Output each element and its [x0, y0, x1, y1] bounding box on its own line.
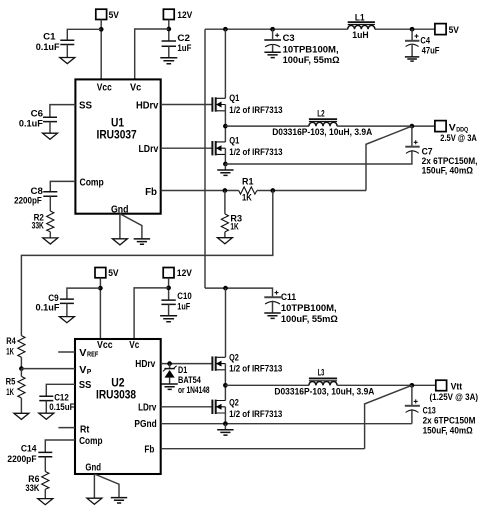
svg-text:1K: 1K — [230, 222, 238, 232]
svg-text:2200pF: 2200pF — [7, 454, 36, 464]
transistor Q1 low-side — [212, 126, 225, 164]
resistor R2 — [47, 211, 54, 238]
ground earth below U1 Gnd — [134, 239, 150, 244]
svg-text:2.5V @ 3A: 2.5V @ 3A — [440, 133, 477, 143]
svg-text:Q2: Q2 — [229, 352, 239, 362]
node 12V/Vc U2 — [166, 286, 171, 291]
svg-text:REF: REF — [87, 352, 99, 359]
svg-text:0.1uF: 0.1uF — [36, 302, 60, 312]
svg-text:HDrv: HDrv — [135, 359, 155, 370]
wire 5V rail lower — [205, 288, 273, 297]
svg-text:1K: 1K — [6, 387, 14, 397]
wire R1 to fb node — [257, 190, 366, 192]
svg-text:100uF, 55mΩ: 100uF, 55mΩ — [281, 314, 339, 324]
wire L3 to Vtt — [337, 384, 436, 386]
wire switch node to L3 — [225, 384, 309, 386]
node Q1 source ground — [223, 162, 228, 167]
svg-text:1/2 of IRF7313: 1/2 of IRF7313 — [229, 147, 282, 157]
wire Gnd U2 fork — [94, 474, 119, 498]
svg-text:Gnd: Gnd — [111, 204, 129, 215]
capacitor C6 — [43, 117, 57, 133]
ground earth below C10 — [160, 316, 177, 322]
node PGnd/Q2 source — [223, 421, 228, 426]
ground earth below D1 — [161, 384, 177, 389]
wire SS U2 to C12 — [46, 384, 75, 396]
ground earth below C2 — [160, 58, 177, 64]
terminal 5V top-left — [96, 9, 107, 19]
svg-text:SS: SS — [79, 100, 92, 111]
wire LDrv to Q1 gate — [161, 147, 213, 149]
capacitor C1 — [60, 40, 74, 57]
terminal 5V right — [435, 24, 446, 35]
svg-text:Vc: Vc — [129, 340, 139, 351]
svg-text:L1: L1 — [355, 12, 365, 22]
wire C1 branch — [67, 29, 101, 40]
svg-text:33K: 33K — [25, 483, 39, 493]
node rail/C3 — [270, 27, 275, 32]
svg-text:10TPB100M,: 10TPB100M, — [283, 45, 339, 55]
node rail/C4 — [410, 27, 415, 32]
ground earth below C11 — [264, 313, 280, 318]
node 5V/C1 junction — [99, 27, 104, 32]
diode D1 BAT54 — [163, 364, 177, 384]
wire C9 branch — [67, 288, 101, 299]
svg-text:0.1uF: 0.1uF — [36, 42, 60, 52]
svg-text:BAT54: BAT54 — [178, 375, 201, 385]
ground earth below U2 Gnd — [111, 498, 127, 503]
capacitor C3 polarized — [264, 29, 281, 52]
svg-text:C4: C4 — [420, 35, 430, 45]
wire 12V to C10 — [168, 278, 170, 300]
capacitor C2 — [162, 41, 176, 58]
resistor R1 — [239, 187, 257, 194]
svg-text:1/2 of IRF7313: 1/2 of IRF7313 — [229, 364, 282, 374]
ground earth Q1 source — [217, 164, 233, 175]
svg-text:D03316P-103, 10uH, 3.9A: D03316P-103, 10uH, 3.9A — [274, 386, 374, 396]
svg-text:Q1: Q1 — [229, 135, 239, 145]
svg-text:R1: R1 — [242, 176, 254, 186]
svg-text:or 1N4148: or 1N4148 — [178, 385, 210, 395]
svg-text:D1: D1 — [178, 365, 187, 375]
svg-text:Vc: Vc — [130, 82, 142, 93]
svg-text:PGnd: PGnd — [134, 419, 156, 430]
svg-text:2200pF: 2200pF — [14, 196, 42, 206]
wire feedback to R4 — [21, 191, 272, 336]
wire switch node to L2 — [225, 125, 309, 127]
wire 5V rail drop to lower circuit — [204, 29, 206, 288]
svg-text:0.1uF: 0.1uF — [19, 118, 43, 128]
capacitor C7 polarized — [405, 126, 419, 163]
ground arrow below U1 Gnd — [112, 239, 127, 245]
terminal VDDQ — [435, 121, 446, 132]
terminal Vtt — [436, 380, 447, 391]
svg-text:L3: L3 — [318, 368, 325, 378]
svg-text:HDrv: HDrv — [136, 100, 159, 111]
op-amp U1 IC box — [75, 79, 160, 213]
wire HDrv U2 to Q2 gate — [161, 363, 213, 365]
inductor L3 — [309, 378, 337, 385]
wire Fb U2 — [161, 448, 365, 450]
svg-text:C12: C12 — [54, 392, 69, 402]
op-amp U2 IC box — [75, 339, 161, 474]
svg-text:V: V — [79, 365, 86, 376]
svg-text:100uF, 55mΩ: 100uF, 55mΩ — [283, 55, 341, 65]
node switch SW1 — [223, 124, 228, 129]
svg-text:1uF: 1uF — [177, 43, 191, 53]
svg-text:R4: R4 — [6, 336, 16, 346]
ground arrow below R6 — [38, 499, 53, 505]
capacitor C11 polarized — [264, 291, 281, 313]
svg-text:0.15uF: 0.15uF — [49, 402, 75, 412]
capacitor C12 — [39, 396, 53, 413]
svg-text:C3: C3 — [283, 33, 295, 43]
terminal 12V top — [163, 9, 174, 19]
wire Vtt feedback diagonal — [365, 385, 412, 448]
svg-text:Rt: Rt — [80, 424, 90, 435]
svg-text:D03316P-103, 10uH, 3.9A: D03316P-103, 10uH, 3.9A — [272, 127, 372, 137]
svg-text:1uF: 1uF — [177, 301, 190, 311]
wire input rail top — [205, 28, 435, 30]
svg-text:R5: R5 — [6, 376, 16, 386]
wire C7 return — [225, 163, 412, 166]
wire Rt stub — [58, 427, 75, 429]
svg-text:C13: C13 — [423, 405, 436, 415]
svg-text:L2: L2 — [317, 108, 324, 118]
resistor R6 — [42, 472, 49, 499]
svg-text:Fb: Fb — [145, 187, 157, 198]
svg-text:U2: U2 — [111, 377, 124, 389]
svg-text:C7: C7 — [422, 146, 433, 156]
ground arrow below C9 — [59, 317, 74, 323]
svg-text:1K: 1K — [242, 193, 252, 203]
terminal 5V bottom — [95, 268, 106, 278]
node HDrv/D1 — [167, 361, 172, 366]
node R1/divider — [270, 188, 275, 193]
svg-text:Q1: Q1 — [229, 93, 239, 103]
svg-text:1/2 of IRF7313: 1/2 of IRF7313 — [229, 409, 282, 419]
svg-text:Comp: Comp — [79, 436, 102, 447]
svg-text:47uF: 47uF — [422, 46, 440, 56]
wire LDrv U2 to Q2 gate — [161, 406, 213, 408]
svg-text:C9: C9 — [48, 293, 58, 303]
node 12V/Vc junction — [166, 27, 171, 32]
svg-text:C10: C10 — [177, 291, 191, 301]
ground earth below C3 — [264, 52, 280, 57]
svg-text:10TPB100M,: 10TPB100M, — [281, 303, 337, 313]
svg-text:150uF, 40mΩ: 150uF, 40mΩ — [422, 165, 474, 175]
wire Vc branch — [135, 29, 169, 79]
svg-text:150uF, 40mΩ: 150uF, 40mΩ — [423, 426, 474, 436]
node VDDQ junction — [410, 124, 415, 129]
ground arrow below R5 — [14, 413, 29, 419]
transistor Q1 high-side — [212, 29, 225, 126]
inductor L1 — [348, 22, 375, 29]
capacitor C8 — [43, 192, 57, 211]
capacitor C4 polarized — [405, 29, 419, 56]
node 5V/C9 — [98, 286, 103, 291]
inductor L2 — [309, 119, 337, 126]
capacitor C14 — [38, 452, 52, 471]
svg-text:C14: C14 — [21, 444, 37, 454]
node Fb/R3 — [223, 188, 228, 193]
svg-text:C6: C6 — [31, 108, 43, 118]
wire SS to C6 — [50, 105, 76, 117]
svg-text:(1.25V @ 3A): (1.25V @ 3A) — [430, 392, 479, 402]
resistor R4 — [18, 336, 25, 369]
svg-text:C2: C2 — [177, 33, 190, 43]
wire HDrv to Q1 gate — [161, 104, 213, 106]
capacitor C9 — [60, 299, 74, 316]
wire L2 to VDDQ — [337, 125, 435, 127]
wire VREF stub — [58, 351, 75, 353]
svg-text:U1: U1 — [111, 117, 125, 129]
svg-text:C8: C8 — [31, 186, 43, 196]
svg-text:LDrv: LDrv — [139, 144, 159, 155]
capacitor C13 polarized — [405, 385, 420, 423]
svg-text:1/2 of IRF7313: 1/2 of IRF7313 — [229, 105, 282, 115]
wire VP to divider — [21, 368, 75, 370]
ground arrow below R2 — [43, 238, 58, 244]
ground arrow below C12 — [39, 413, 54, 419]
svg-text:Vtt: Vtt — [451, 381, 463, 391]
ground arrow below U2 Gnd — [87, 498, 102, 504]
terminal 12V bottom — [163, 268, 174, 278]
wire Fb pin — [161, 190, 239, 192]
wire 5V terminal to Vcc — [100, 20, 102, 80]
svg-text:5V: 5V — [108, 268, 119, 278]
node rail/Q2 drain — [223, 286, 228, 291]
node rail/Q1 drain — [223, 27, 228, 32]
svg-text:C1: C1 — [43, 31, 55, 41]
wire VDDQ feedback diagonal — [366, 126, 412, 190]
wire 12V terminal to C2 — [168, 20, 170, 41]
svg-text:Q2: Q2 — [229, 398, 239, 408]
svg-text:12V: 12V — [177, 268, 193, 278]
svg-text:2x 6TPC150M: 2x 6TPC150M — [423, 415, 476, 425]
svg-text:5V: 5V — [109, 10, 120, 20]
svg-text:IRU3037: IRU3037 — [97, 130, 137, 142]
node R4/R5/VP — [19, 366, 24, 371]
node Vtt junction — [410, 383, 415, 388]
svg-text:5V: 5V — [449, 25, 460, 35]
svg-text:LDrv: LDrv — [138, 402, 157, 413]
wire Comp U2 to C14 — [45, 440, 75, 452]
svg-text:1K: 1K — [6, 347, 14, 357]
resistor R3 — [221, 191, 228, 238]
svg-text:33K: 33K — [32, 221, 45, 231]
transistor Q2 high-side — [212, 288, 225, 385]
svg-text:Fb: Fb — [144, 444, 154, 455]
svg-text:C11: C11 — [281, 292, 296, 302]
wire Vc branch U2 — [134, 288, 169, 339]
wire 5V to Vcc U2 — [99, 278, 101, 339]
svg-text:SS: SS — [79, 380, 92, 391]
wire Comp to C8 — [50, 181, 75, 191]
ground arrow below C6 — [43, 133, 58, 139]
svg-text:Comp: Comp — [80, 177, 104, 188]
ground arrow below R3 — [217, 238, 232, 244]
svg-text:V: V — [79, 348, 86, 359]
svg-text:Gnd: Gnd — [85, 463, 101, 474]
svg-text:1uH: 1uH — [352, 30, 369, 40]
ground arrow below C1 — [60, 58, 75, 64]
svg-text:P: P — [87, 369, 92, 376]
transistor Q2 low-side — [212, 385, 225, 423]
ground earth below C4 — [405, 57, 419, 61]
node switch SW2 — [223, 383, 228, 388]
wire Gnd pin fork — [120, 214, 142, 239]
resistor R5 — [18, 369, 25, 414]
wire PGnd — [161, 423, 412, 425]
svg-text:IRU3038: IRU3038 — [96, 390, 137, 402]
svg-text:Vcc: Vcc — [97, 82, 112, 93]
capacitor C10 — [161, 300, 175, 315]
svg-text:12V: 12V — [177, 10, 193, 20]
ground earth Q2 source — [217, 424, 233, 435]
svg-text:Vcc: Vcc — [97, 340, 113, 351]
